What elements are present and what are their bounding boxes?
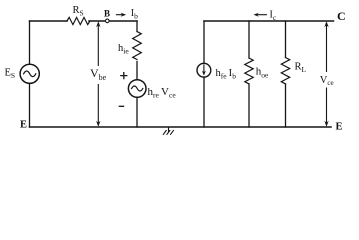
current source hfe Ib <box>197 63 211 77</box>
arrow Ic <box>258 14 267 16</box>
svg-text:Ib: Ib <box>131 8 138 21</box>
arrow Ib <box>116 14 122 16</box>
svg-text:ES: ES <box>5 68 16 81</box>
label minus hre <box>119 105 125 107</box>
wire bottom <box>30 126 332 128</box>
svg-text:Ic: Ic <box>270 10 277 23</box>
ground <box>163 127 173 134</box>
resistor hoe <box>245 58 253 84</box>
source hre Vce <box>128 80 146 98</box>
svg-text:E: E <box>20 120 27 131</box>
svg-text:hre Vce: hre Vce <box>148 86 177 100</box>
svg-text:RS: RS <box>73 5 84 18</box>
svg-text:B: B <box>104 9 110 19</box>
label plus hre <box>120 72 127 79</box>
wire RL branch top <box>285 21 287 58</box>
wire RL branch bottom <box>285 84 287 127</box>
wire Rs to hie corner <box>89 20 137 22</box>
arrow Vce <box>326 24 328 125</box>
wire left vertical <box>29 21 31 127</box>
svg-text:Vbe: Vbe <box>90 66 107 82</box>
resistor RS <box>67 17 90 24</box>
node B <box>106 19 110 23</box>
svg-text:hie: hie <box>118 43 129 56</box>
source ES <box>20 64 39 83</box>
svg-text:hfe Ib: hfe Ib <box>216 68 237 81</box>
wire top-right horizontal <box>204 20 334 22</box>
svg-text:hoe: hoe <box>256 66 269 80</box>
svg-text:Vce: Vce <box>320 75 334 87</box>
wire hfe branch <box>203 21 205 127</box>
wire hie to hre source <box>136 62 138 80</box>
wire hre source to bottom <box>136 97 138 127</box>
svg-text:E: E <box>336 122 343 133</box>
arrow Vbe <box>97 24 99 125</box>
svg-text:C: C <box>337 9 346 23</box>
resistor hie <box>133 32 142 60</box>
svg-text:RL: RL <box>295 62 307 75</box>
wire top-left horizontal (Es to Rs) <box>30 20 68 22</box>
resistor RL <box>281 58 289 84</box>
wire hoe branch bottom <box>248 84 250 127</box>
wire hie branch top <box>136 21 138 32</box>
wire hoe branch top <box>248 21 250 58</box>
